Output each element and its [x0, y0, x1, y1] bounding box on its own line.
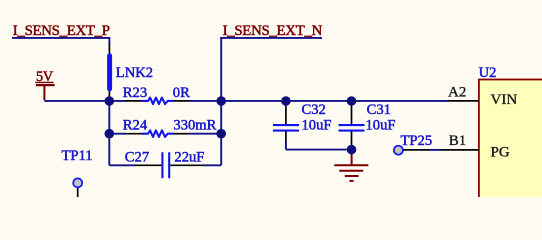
- svg-text:I_SENS_EXT_N: I_SENS_EXT_N: [223, 23, 323, 39]
- junction node C32 top: [281, 96, 291, 106]
- resistor R23 pin 2: [174, 100, 190, 102]
- svg-text:U2: U2: [479, 65, 497, 81]
- resistor R24 pin 2: [174, 133, 190, 135]
- test point TP11 pad: [73, 178, 82, 187]
- ground symbol: [351, 153, 353, 166]
- wire C32 to ground rail: [286, 142, 352, 150]
- junction node C31 bottom: [347, 145, 357, 155]
- svg-text:10uF: 10uF: [302, 118, 332, 134]
- wire I_SENS_EXT_P vertical stub: [108, 37, 110, 44]
- capacitor C31 pin bottom: [351, 132, 353, 148]
- svg-text:0R: 0R: [173, 85, 190, 101]
- U2 pin B1 (PG): [441, 149, 479, 151]
- capacitor C27 pin 1: [134, 164, 161, 166]
- svg-text:R23: R23: [123, 85, 147, 101]
- wire R24 to right column: [189, 133, 221, 135]
- test point TP25 pad: [394, 146, 403, 155]
- capacitor C27 pin 2: [170, 164, 204, 166]
- svg-text:VIN: VIN: [491, 92, 518, 108]
- wire R23 to VIN row: [189, 100, 447, 102]
- svg-text:LNK2: LNK2: [116, 65, 153, 81]
- resistor R24 body zigzag: [142, 130, 174, 137]
- op-amp U2 (IC body box): [479, 80, 542, 199]
- U2 pin A2 (VIN): [447, 100, 479, 102]
- svg-text:22uF: 22uF: [174, 150, 204, 166]
- wire 5V to node: [44, 100, 110, 102]
- junction node P-row right: [216, 96, 226, 106]
- svg-text:C31: C31: [367, 102, 391, 118]
- inductor-link LNK2 pin top: [108, 43, 110, 54]
- svg-text:TP25: TP25: [401, 133, 433, 149]
- wire node row2 to R24: [109, 133, 126, 135]
- svg-text:I_SENS_EXT_P: I_SENS_EXT_P: [13, 23, 110, 39]
- resistor R23 pin 1: [126, 100, 143, 102]
- resistor R23 body zigzag: [142, 98, 174, 105]
- capacitor C31 plates: [339, 125, 365, 131]
- capacitor C32 pin bottom: [285, 132, 287, 143]
- wire I_SENS_EXT_P horizontal: [12, 37, 109, 39]
- wire node P row to R23: [109, 100, 126, 102]
- wire left column vertical: [108, 101, 110, 165]
- svg-text:10uF: 10uF: [366, 118, 396, 134]
- wire I_SENS_EXT_N horizontal: [220, 37, 322, 39]
- capacitor C27 plates: [162, 152, 169, 178]
- capacitor C32 plates: [273, 125, 299, 131]
- svg-text:A2: A2: [448, 85, 466, 101]
- test point TP25 pin: [403, 149, 431, 151]
- wire right column vertical: [220, 101, 222, 165]
- junction node P-row left: [105, 96, 115, 106]
- junction node row2 left: [105, 129, 115, 139]
- svg-text:PG: PG: [491, 144, 510, 160]
- wire I_SENS_EXT_N vertical: [220, 37, 222, 101]
- svg-text:TP11: TP11: [62, 148, 93, 164]
- svg-text:330mR: 330mR: [173, 118, 216, 134]
- svg-text:C27: C27: [125, 150, 149, 166]
- resistor R24 pin 1: [126, 133, 143, 135]
- junction node C31 top: [347, 96, 357, 106]
- wire TP25 to PG pin: [430, 149, 442, 151]
- inductor-link LNK2 body: [107, 56, 112, 89]
- svg-text:R24: R24: [123, 118, 148, 134]
- inductor-link LNK2 pin bottom: [108, 91, 110, 98]
- capacitor C32 pin top: [285, 103, 287, 124]
- test point TP11 pin: [77, 187, 79, 198]
- svg-text:C32: C32: [302, 102, 326, 118]
- wire right to C27: [204, 164, 221, 166]
- wire left to C27: [109, 164, 134, 166]
- svg-text:B1: B1: [449, 133, 467, 149]
- junction node row2 right: [216, 129, 226, 139]
- capacitor C31 pin top: [351, 103, 353, 124]
